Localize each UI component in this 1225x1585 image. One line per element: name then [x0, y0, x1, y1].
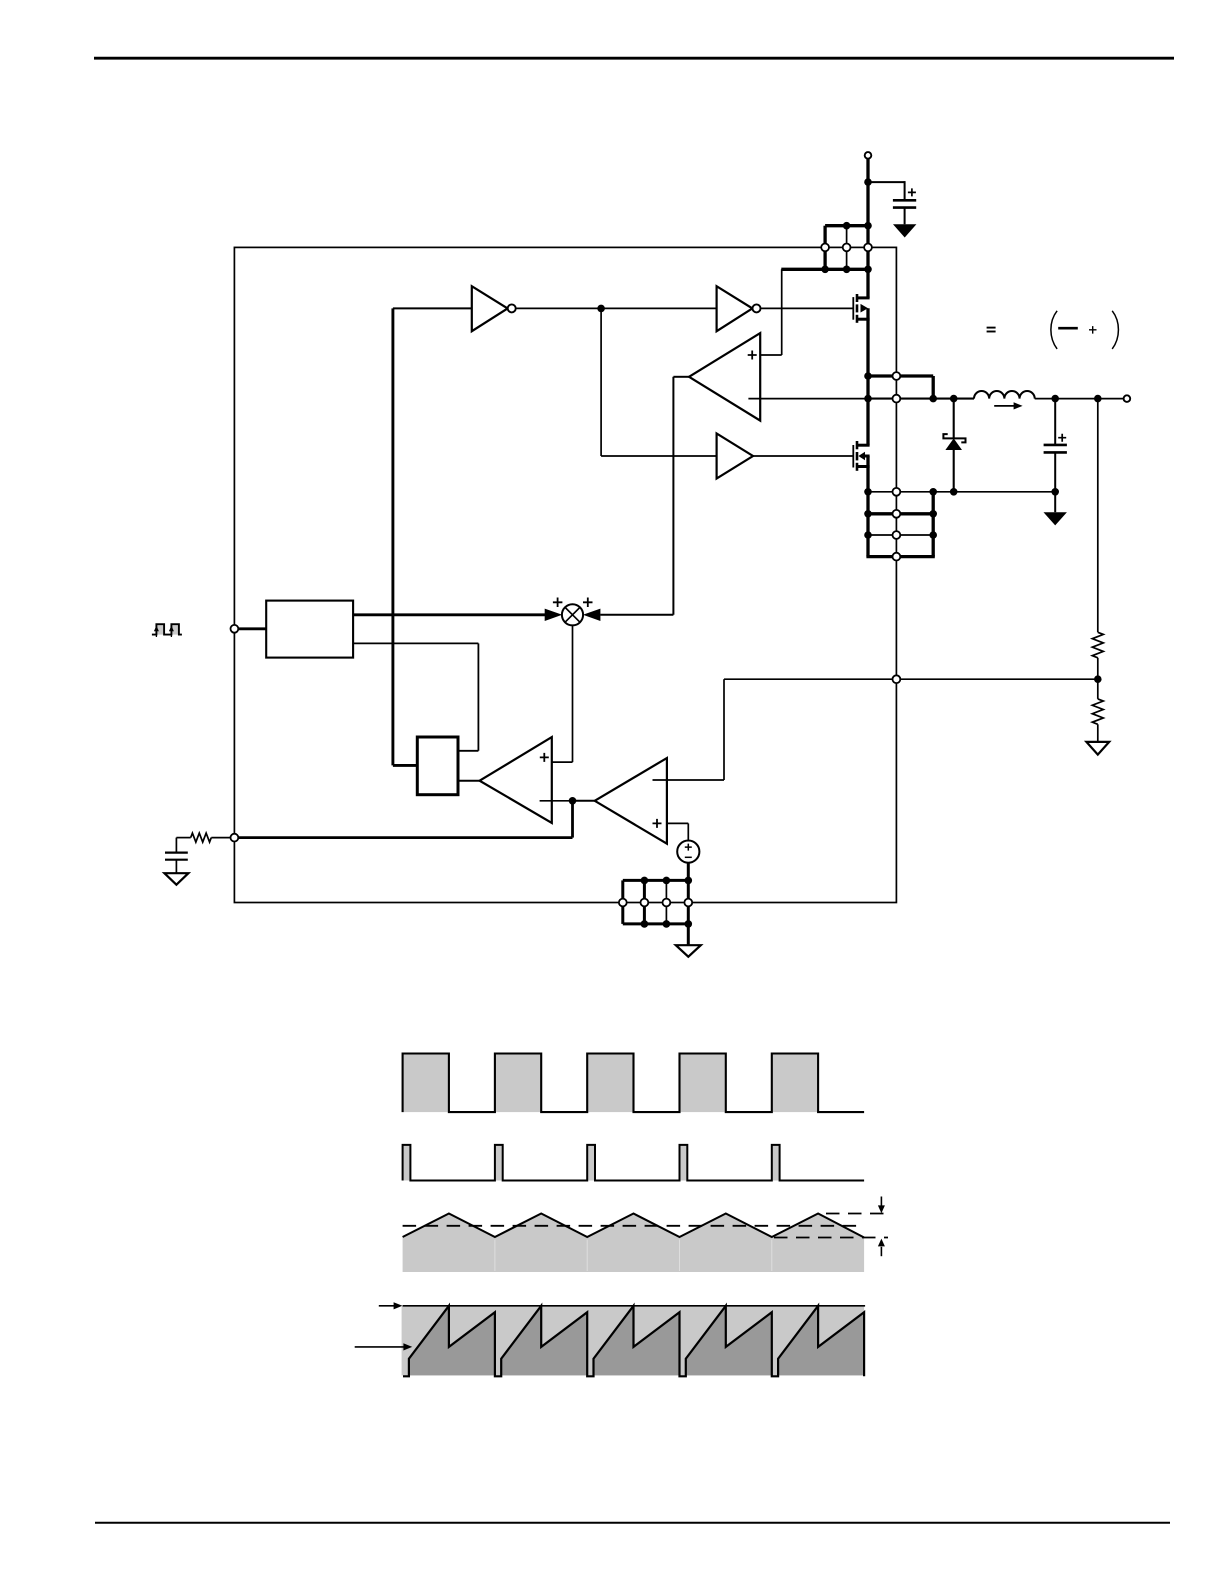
wire reference to gnd grid: [687, 863, 690, 881]
junction output cap: [1051, 395, 1059, 403]
wire VIN grid top row: [825, 224, 868, 227]
wire ref grid col2: [665, 880, 667, 924]
wire gnd grid row2: [868, 512, 933, 515]
summing node plus sign right: [583, 598, 593, 608]
wire VIN grid left column: [823, 226, 826, 270]
node VIN terminal: [865, 152, 872, 159]
ramp delta arrow down: [880, 1197, 882, 1207]
pin SW-2: [893, 395, 901, 403]
wire C-out ground stub: [1054, 492, 1056, 512]
transistor Q1 source stub: [857, 318, 870, 321]
formula fraction bar: [1058, 327, 1078, 330]
wire U4 to Q2 gate: [753, 455, 853, 457]
junction ground return dots: [864, 488, 872, 496]
ramp mid dashed level: [403, 1225, 864, 1227]
wire ground return row: [868, 491, 1055, 493]
wire inductor to VOUT: [1035, 398, 1124, 400]
wire FB to error amp: [724, 678, 1098, 680]
pin AGND-4: [684, 899, 692, 907]
wire gnd grid row4: [866, 555, 934, 558]
pin VC: [231, 834, 239, 842]
ramp low dashed level: [774, 1237, 888, 1239]
pin FB: [893, 675, 901, 683]
inverter U3: [717, 286, 753, 331]
pin GND-3: [893, 531, 901, 539]
transistor Q1 gate bar: [852, 297, 854, 320]
wire ref grid left bracket: [621, 880, 624, 924]
current peak arrow: [379, 1305, 395, 1307]
wire switch node row: [868, 398, 974, 400]
junction node VC: [569, 797, 577, 805]
comparator U5 plus sign: [540, 753, 549, 762]
junction VIN grid dots: [843, 222, 851, 230]
transistor Q2 channel segments: [856, 441, 859, 449]
op-amp U1 inverting input wire: [748, 398, 868, 400]
op-amp U6 error amp: [595, 758, 667, 844]
junction gnd grid dots: [864, 510, 872, 518]
junction node FB: [1094, 675, 1102, 683]
ground input capacitor (filled): [893, 224, 916, 237]
waveform switch-voltage: [403, 1054, 449, 1113]
formula left parenthesis: [1051, 311, 1057, 349]
diode D1 anode wire: [953, 450, 955, 492]
page footer rule: [95, 1522, 1170, 1524]
wire oscillator pulse out: [353, 642, 478, 644]
wire VC line: [238, 836, 572, 839]
junction switch node dots: [864, 395, 872, 403]
junction node G: [597, 305, 605, 313]
pin AGND-2: [641, 899, 649, 907]
transistor Q2 body arrow: [858, 452, 865, 461]
inverter U2: [472, 286, 508, 331]
wire to input capacitor: [868, 181, 905, 183]
pin GND-1: [893, 488, 901, 496]
current valley arrow: [355, 1346, 404, 1348]
junction VIN cap tap: [864, 178, 872, 186]
op-amp U1: [689, 333, 760, 421]
junction ref grid dots: [641, 877, 649, 885]
pin GND-2: [893, 510, 901, 518]
op-amp U1 output wire: [673, 376, 689, 378]
formula plus sign: [1089, 326, 1097, 334]
wire R1 to node FB: [1097, 658, 1099, 699]
ramp peak dashed level: [826, 1213, 888, 1215]
node VOUT terminal: [1124, 395, 1131, 402]
diode D1 cathode wire: [953, 399, 955, 439]
oscillator block: [266, 601, 353, 658]
waveform ramp: [403, 1214, 864, 1273]
wire U2 out to U3: [516, 307, 717, 309]
wire R2 to ground: [1097, 724, 1099, 742]
sync input glyph: [152, 624, 182, 634]
transistor Q2 source stub: [857, 465, 870, 468]
latch block: [417, 737, 458, 795]
op-amp U6 noninverting input wire: [667, 822, 688, 824]
pin AGND-3: [663, 899, 671, 907]
inverter U2 input wire: [393, 307, 472, 309]
wire VIN bus upper segment: [866, 159, 869, 298]
buffer U4: [717, 434, 753, 479]
diode D1 schottky bar: [943, 434, 965, 442]
junction switch upper: [864, 372, 872, 380]
wire ref grid bottom row: [623, 922, 689, 925]
diode D1: [945, 438, 962, 450]
ground divider (open): [1086, 742, 1109, 755]
pin SW-1: [893, 372, 901, 380]
wire latch input: [393, 764, 417, 767]
wire comparator out to latch: [458, 780, 480, 782]
pin VIN-3: [864, 244, 872, 252]
transistor Q1 drain stub: [857, 296, 870, 299]
op-amp U1 plus sign: [748, 351, 757, 360]
wire VIN grid bottom row: [781, 268, 868, 271]
current limit top line: [403, 1305, 865, 1307]
inductor L1: [974, 391, 1035, 399]
wire VIN grid middle column: [846, 226, 848, 270]
comparator U5 inverting input wire: [540, 800, 573, 802]
wire ref grid col1: [643, 880, 646, 924]
wire latch to inverter U2: [391, 308, 394, 765]
inverter U2 output bubble: [508, 304, 516, 312]
waveform inductor-current: [402, 1306, 864, 1376]
pin GND-4: [893, 553, 901, 561]
wire osc pin to block: [238, 627, 266, 630]
comparator U5: [480, 737, 552, 823]
ground output capacitor (filled): [1044, 512, 1067, 525]
wire ref grid to ground: [687, 924, 690, 945]
capacitor C-out plus sign: [1058, 434, 1066, 442]
ground reference (open): [676, 945, 701, 957]
transistor Q2 gate bar: [852, 445, 854, 468]
wire U1 out to summing node: [600, 614, 673, 616]
capacitor C-in plus sign: [908, 188, 916, 196]
wire VC pin to resistor: [211, 837, 230, 839]
pin OSC input: [231, 625, 239, 633]
wire bus Q1 to switch node: [866, 308, 869, 445]
op-amp U6 inverting input wire: [653, 779, 725, 781]
wire VOUT to R1: [1097, 399, 1099, 633]
formula right parenthesis: [1112, 311, 1118, 349]
wire node G down: [600, 308, 602, 456]
reference minus sign: [685, 856, 692, 858]
resistor R1: [1092, 632, 1103, 657]
wire bus Q2 source down: [866, 456, 869, 557]
wire node G to U4: [601, 455, 717, 457]
reference source V1: [677, 841, 699, 863]
capacitor C-out: [1044, 444, 1067, 447]
page header rule: [94, 57, 1174, 60]
inductor current arrow: [994, 405, 1014, 407]
wire switch row corner: [932, 376, 935, 399]
summing node plus sign left: [553, 598, 563, 608]
waveform oscillator-pulses: [403, 1145, 411, 1181]
ground comp network (open): [164, 873, 188, 885]
wire summing to PWM comparator: [572, 625, 574, 762]
IC boundary box: [234, 247, 896, 902]
formula equals sign: [987, 327, 996, 329]
wire oscillator ramp out: [353, 613, 545, 616]
transistor Q2 drain stub: [857, 444, 870, 447]
op-amp U6 plus sign: [653, 819, 662, 828]
summing node: [562, 604, 583, 625]
wire switch row upper: [868, 374, 933, 377]
wire gnd grid row3: [868, 534, 933, 536]
pin VIN-1: [821, 244, 829, 252]
capacitor C-in: [893, 199, 916, 202]
wire gnd grid right column: [932, 492, 935, 557]
wire VC to error amp out: [573, 800, 595, 802]
resistor R2: [1092, 699, 1103, 724]
inverter U3 output bubble: [753, 304, 761, 312]
transistor Q1 body arrow: [861, 304, 869, 313]
reference plus sign: [685, 844, 692, 851]
ramp delta arrow up: [880, 1247, 882, 1256]
transistor Q2 body stub: [865, 455, 870, 458]
capacitor C3 comp: [165, 851, 188, 853]
pin VIN-2: [843, 244, 851, 252]
summing node input arrow left: [545, 609, 563, 621]
transistor Q1 channel segments: [856, 294, 859, 302]
pin AGND-1: [619, 899, 627, 907]
wire resistor to cap: [176, 837, 190, 839]
resistor R3 comp: [191, 833, 212, 842]
wire U3 to Q1 gate: [761, 307, 854, 309]
wire ref grid col3: [687, 880, 690, 924]
summing node input arrow right: [583, 609, 601, 621]
junction feedback tap: [1094, 395, 1102, 403]
wire ref grid top row: [623, 879, 689, 882]
capacitor C-out wire: [1054, 399, 1056, 445]
op-amp U1 noninverting input wire: [760, 354, 782, 356]
